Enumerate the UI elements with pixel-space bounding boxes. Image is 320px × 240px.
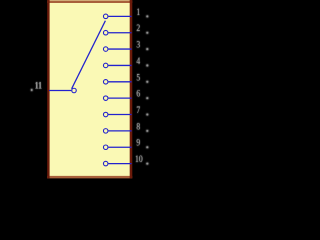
svg-text:8: 8 — [136, 121, 140, 132]
pin 5 wire segment — [108, 81, 131, 83]
svg-text:6: 6 — [136, 88, 140, 99]
pin 4 contact circle — [103, 63, 108, 68]
pin number labels 1-10 and 11 (core layer) — [35, 6, 143, 164]
pin 5 contact circle — [103, 80, 108, 85]
pin 10 contact circle — [103, 161, 108, 166]
pin 2 wire segment — [108, 32, 131, 34]
switch SW1 body border left — [47, 0, 49, 178]
svg-text:5: 5 — [136, 71, 140, 82]
pin 10 wire segment — [108, 163, 131, 165]
switch SW1 body — [48, 0, 132, 178]
pin 7 wire segment — [108, 114, 131, 116]
pin 7 contact circle — [103, 112, 108, 117]
pin 3 contact circle — [103, 47, 108, 52]
svg-text:1: 1 — [136, 6, 140, 17]
pin number labels 1-10 and 11 (halo layer) — [35, 6, 143, 164]
svg-text:2: 2 — [136, 22, 140, 33]
pin 11 common contact circle — [72, 88, 77, 93]
svg-text:9: 9 — [136, 137, 140, 148]
pin 6 contact circle — [103, 96, 108, 101]
pin 1 contact circle — [103, 14, 108, 19]
pin 2 contact circle — [103, 30, 108, 35]
pin 9 wire segment — [108, 146, 131, 148]
pin 8 wire segment — [108, 130, 131, 132]
wire: wiper arm from common pin 11 to contact 1 — [72, 21, 106, 89]
pin 11 common wire segment — [49, 90, 71, 92]
switch SW1 body border top — [47, 0, 132, 3]
pin end markers right side (halo layer) — [31, 15, 149, 165]
pin 6 wire segment — [108, 97, 131, 99]
pin 3 wire segment — [108, 48, 131, 50]
svg-text:3: 3 — [136, 39, 140, 50]
switch SW1 body border bottom — [47, 176, 132, 179]
pin 9 contact circle — [103, 145, 108, 150]
pin 8 contact circle — [103, 129, 108, 134]
pin end markers right side (core layer) — [31, 15, 148, 164]
pin 4 wire segment — [108, 64, 131, 66]
switch SW1 body border right — [130, 0, 133, 178]
svg-text:11: 11 — [35, 80, 42, 91]
svg-text:7: 7 — [136, 104, 140, 115]
pin 1 wire segment — [108, 15, 131, 17]
svg-text:4: 4 — [136, 55, 140, 66]
svg-text:10: 10 — [135, 153, 143, 164]
